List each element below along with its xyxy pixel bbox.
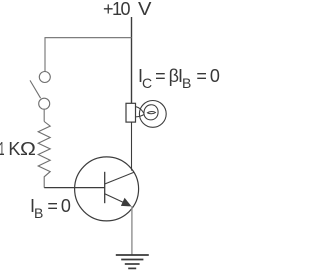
wire: top horizontal rail	[45, 37, 132, 39]
wire: left vertical drop to switch	[44, 38, 46, 72]
ground symbol	[116, 255, 149, 268]
lamp socket rectangle	[126, 103, 136, 122]
wire: lamp to collector	[131, 122, 133, 171]
transistor emitter line with arrow	[105, 194, 132, 207]
transistor base bar	[104, 172, 106, 203]
resistor 1 kΩ zigzag	[38, 122, 50, 188]
wire: switch to resistor	[43, 109, 45, 121]
label IB = 0	[30, 196, 70, 221]
wire: resistor to transistor base	[44, 187, 104, 189]
lamp filament loop	[136, 105, 158, 120]
switch (open) top contact	[39, 72, 50, 83]
label IC = βIB = 0	[138, 66, 219, 91]
transistor NPN circle	[75, 157, 139, 221]
lamp bulb circle	[139, 101, 166, 128]
transistor collector line	[105, 172, 134, 184]
switch (open) bottom contact	[39, 98, 50, 109]
switch lever arm	[30, 80, 41, 98]
wire: +10V vertical feed down to lamp	[131, 17, 133, 103]
label 1 KΩ resistor value	[0, 138, 1, 140]
wire: emitter to ground	[131, 206, 133, 255]
